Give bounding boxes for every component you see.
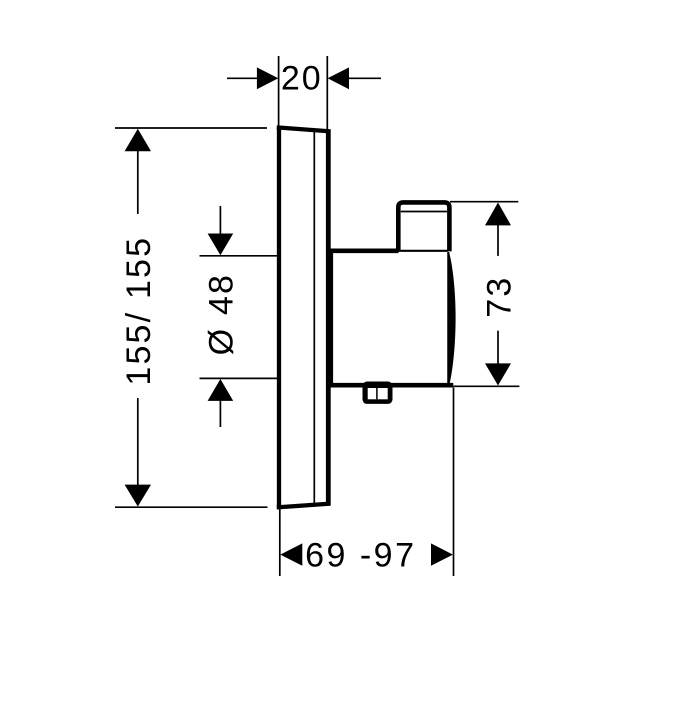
wall plate side view: bottom edge — [277, 504, 331, 508]
svg-text:69 -97: 69 -97 — [305, 537, 416, 575]
thermostat knob outline — [398, 202, 449, 251]
wall plate side view: left (front) edge — [277, 126, 281, 509]
dim 73: bottom arrowhead — [485, 363, 511, 385]
dim 155/155: upper dimension line — [137, 150, 139, 214]
svg-text:155/ 155: 155/ 155 — [120, 236, 158, 386]
dim 69-97: right arrowhead — [431, 543, 453, 565]
stop button divider — [376, 388, 378, 399]
dim 155/155: top arrowhead — [125, 129, 151, 151]
valve body: top edge — [329, 248, 399, 253]
dim 73: lower dimension line — [497, 331, 499, 364]
dim 155/155: lower dimension line — [137, 398, 139, 487]
stop button windows — [368, 388, 388, 399]
bottom volume-control stop button — [363, 382, 393, 404]
dim 155/155: top extension line — [115, 127, 267, 129]
dim 20: right arrowhead — [328, 67, 349, 89]
valve body: right flat face edge — [447, 252, 449, 384]
dim 20: left arrow tail — [227, 77, 257, 79]
dim 155/155: bottom arrowhead — [125, 485, 151, 507]
valve body: right rounded silhouette — [447, 253, 455, 384]
wall plate side view: top edge — [277, 127, 331, 131]
dim 20: right extension line — [326, 56, 328, 130]
dim d48: upper extension line — [200, 255, 278, 257]
dim 73: top arrowhead — [485, 203, 511, 226]
dim 20: left arrowhead — [257, 67, 278, 89]
svg-text:Ø 48: Ø 48 — [203, 273, 241, 356]
svg-text:73: 73 — [481, 275, 519, 317]
dim d48: lower arrow tail — [219, 400, 221, 427]
dim d48: upper arrowhead — [208, 234, 234, 256]
dim 69-97: left extension line — [279, 510, 281, 577]
svg-text:20: 20 — [281, 60, 323, 98]
dim 73: upper dimension line — [497, 224, 499, 256]
thermostat knob cap seam — [401, 211, 447, 213]
valve body: left edge against plate — [330, 249, 333, 388]
dim 69-97: right extension line — [453, 388, 455, 577]
wall plate side view: right (back) edge — [326, 130, 331, 506]
dim d48: lower arrowhead — [208, 379, 234, 401]
dim 73: top extension line — [450, 201, 518, 203]
wall plate face inner contour line — [313, 130, 315, 505]
dim 73: bottom extension line — [453, 385, 519, 387]
dim d48: upper arrow tail — [219, 206, 221, 235]
dim 155/155: bottom extension line — [115, 506, 268, 508]
valve body: seam under knob — [399, 250, 448, 252]
valve body: bottom edge — [330, 383, 454, 388]
dim d48: lower extension line — [200, 377, 278, 379]
dim 20: left extension line — [278, 56, 280, 126]
dim 69-97: left arrowhead — [280, 543, 302, 565]
dim 20: right arrow tail — [349, 77, 381, 79]
